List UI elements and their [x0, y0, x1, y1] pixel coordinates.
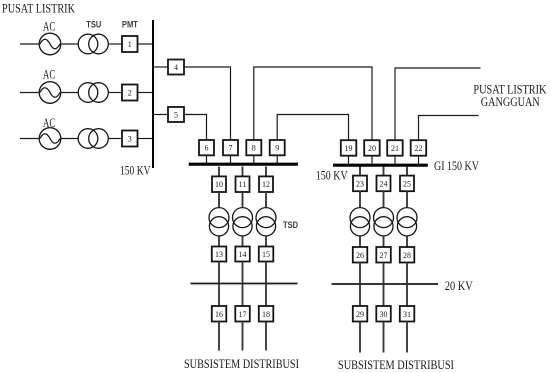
svg-text:TSD: TSD: [283, 220, 298, 230]
breaker box 15: [259, 247, 274, 262]
transformer TSD6: [397, 208, 417, 236]
wire box 9 to box 19 (line E): [277, 115, 348, 141]
wire box24 to TSD5: [383, 191, 385, 208]
breaker box 31: [400, 306, 415, 322]
generator AC2: [39, 82, 61, 104]
wire box15 to 20KV line: [265, 262, 267, 284]
wire feeder 16 down: [218, 322, 220, 351]
wire box13 to 20KV line: [218, 262, 220, 284]
svg-text:16: 16: [215, 310, 223, 319]
svg-text:AC: AC: [43, 19, 56, 34]
transformer TSD3: [256, 208, 276, 236]
svg-text:5: 5: [174, 111, 178, 120]
wire 20KV to box 16: [218, 284, 220, 307]
svg-text:28: 28: [403, 251, 411, 260]
wire 20KV to box 29: [359, 284, 361, 306]
svg-text:20 KV: 20 KV: [445, 278, 473, 293]
wire bus to box 5: [153, 114, 168, 116]
bus 20 KV right: [332, 283, 439, 285]
wire box25 to TSD6: [406, 191, 408, 208]
wire TSU3 to PMT3: [108, 138, 122, 140]
breaker box 23: [353, 176, 367, 192]
svg-text:18: 18: [262, 310, 270, 319]
breaker box 7: [223, 140, 238, 155]
svg-text:29: 29: [356, 310, 364, 319]
svg-text:27: 27: [380, 251, 388, 260]
wire stub G2: [20, 92, 39, 94]
svg-text:2: 2: [128, 89, 132, 98]
breaker box 19: [341, 140, 357, 156]
breaker box 29: [353, 306, 368, 322]
svg-text:21: 21: [391, 144, 399, 153]
wire box11 to TSD2: [242, 192, 244, 208]
wire PMT1 to bus: [138, 43, 154, 45]
wire box7 to left busbar: [230, 155, 232, 163]
wire busbar to box 23: [359, 167, 361, 176]
wire busbar to box 11: [242, 167, 244, 177]
svg-text:31: 31: [403, 310, 411, 319]
svg-text:9: 9: [275, 144, 279, 153]
wire 20KV to box 31: [406, 284, 408, 306]
wire PMT3 to bus: [138, 138, 154, 140]
wire feeder 18 down: [265, 322, 267, 351]
wire TSU1 to PMT1: [108, 43, 122, 45]
breaker box 11: [236, 176, 250, 192]
svg-text:GANGGUAN: GANGGUAN: [481, 94, 540, 109]
wire box 22 to Pusat Listrik Gangguan (line F): [419, 116, 479, 141]
breaker box 21: [387, 140, 403, 156]
wire TSD5 to box 27: [383, 236, 385, 247]
breaker box 4: [168, 60, 184, 75]
breaker box 26: [353, 247, 368, 263]
wire box14 to 20KV line: [242, 262, 244, 284]
svg-text:GI 150 KV: GI 150 KV: [434, 158, 479, 173]
breaker box 25: [400, 176, 414, 192]
bus 20 KV left: [191, 283, 298, 285]
wire box27 to 20KV line right: [383, 263, 385, 285]
breaker box 3: [122, 131, 138, 147]
transformer TSD4: [350, 208, 370, 236]
label PUSAT LISTRIK GANGGUAN: [473, 82, 546, 110]
svg-text:15: 15: [262, 250, 270, 259]
svg-text:12: 12: [262, 180, 270, 189]
transformer TSU1: [78, 34, 108, 54]
wire feeder 17 down: [242, 322, 244, 351]
svg-text:7: 7: [229, 144, 233, 153]
wire 20KV to box 17: [242, 284, 244, 307]
svg-text:AC: AC: [43, 67, 56, 82]
breaker box 14: [235, 247, 250, 262]
svg-text:23: 23: [356, 179, 364, 188]
svg-text:10: 10: [215, 180, 223, 189]
wire G2 to TSU2: [61, 92, 79, 94]
breaker box 2: [122, 85, 138, 101]
svg-text:20: 20: [368, 144, 376, 153]
wire box20 to right busbar: [371, 156, 373, 164]
svg-text:30: 30: [380, 310, 388, 319]
svg-text:26: 26: [356, 251, 364, 260]
breaker box 12: [259, 176, 273, 192]
breaker box 10: [212, 176, 226, 192]
breaker box 27: [376, 247, 391, 263]
wire TSD6 to box 28: [406, 236, 408, 247]
wire box26 to 20KV line right: [359, 263, 361, 285]
wire stub G1: [20, 43, 39, 45]
wire box8 to left busbar: [253, 155, 255, 163]
transformer TSD1: [209, 208, 229, 236]
wire stub G3: [20, 138, 39, 140]
wire box28 to 20KV line right: [406, 263, 408, 285]
breaker box 1: [122, 36, 138, 52]
wire PMT2 to bus: [138, 92, 154, 94]
svg-text:6: 6: [205, 144, 209, 153]
svg-text:25: 25: [403, 179, 411, 188]
svg-text:SUBSISTEM DISTRIBUSI: SUBSISTEM DISTRIBUSI: [338, 357, 454, 372]
svg-text:PUSAT LISTRIK: PUSAT LISTRIK: [2, 0, 75, 15]
svg-text:PMT: PMT: [122, 19, 138, 29]
breaker box 16: [212, 306, 227, 322]
wire box12 to TSD3: [265, 192, 267, 208]
generator AC3: [39, 128, 61, 150]
wire busbar to box 10: [218, 167, 220, 177]
svg-text:SUBSISTEM DISTRIBUSI: SUBSISTEM DISTRIBUSI: [184, 356, 299, 371]
breaker box 13: [212, 247, 227, 262]
svg-text:TSU: TSU: [86, 19, 101, 29]
wire box23 to TSD4: [359, 191, 361, 208]
breaker box 24: [377, 176, 391, 192]
breaker box 8: [246, 140, 261, 155]
wire TSD3 to box 15: [265, 236, 267, 247]
svg-text:150 KV: 150 KV: [120, 163, 151, 178]
transformer TSU2: [78, 83, 108, 103]
wire box10 to TSD1: [218, 192, 220, 208]
breaker box 9: [270, 140, 285, 155]
wire busbar to box 25: [406, 167, 408, 176]
wire 20KV to box 30: [383, 284, 385, 306]
transformer TSD5: [374, 208, 394, 236]
wire box19 to right busbar: [348, 156, 350, 164]
svg-text:1: 1: [128, 40, 132, 49]
transformer TSD2: [233, 208, 253, 236]
svg-text:13: 13: [215, 250, 223, 259]
svg-text:150 KV: 150 KV: [316, 168, 348, 183]
svg-text:8: 8: [252, 144, 256, 153]
wire box 21 open line (line C): [395, 68, 481, 140]
busbar right (GI 150 KV): [333, 164, 428, 167]
wire busbar to box 24: [383, 167, 385, 176]
wire G1 to TSU1: [61, 43, 79, 45]
wire TSD2 to box 14: [242, 236, 244, 247]
bus 150 KV (plant, vertical): [152, 20, 154, 168]
svg-text:19: 19: [345, 144, 353, 153]
busbar left (GI): [189, 163, 298, 166]
svg-text:3: 3: [128, 135, 132, 144]
wire TSU2 to PMT2: [108, 92, 122, 94]
wire feeder 31 down: [406, 322, 408, 353]
breaker box 17: [235, 306, 250, 322]
svg-text:17: 17: [239, 310, 247, 319]
breaker box 18: [259, 306, 274, 322]
svg-text:22: 22: [415, 144, 423, 153]
wire box9 to left busbar: [276, 155, 278, 163]
wire G3 to TSU3: [61, 138, 79, 140]
wire box 5 to box 6 (line D): [184, 115, 207, 141]
wire box 8 to box 20 (line B): [254, 67, 372, 140]
svg-text:14: 14: [239, 250, 247, 259]
wire box 4 to box 7 (line A): [184, 67, 231, 140]
transformer TSU3: [78, 129, 108, 149]
breaker box 20: [364, 140, 380, 156]
generator AC1: [39, 33, 61, 55]
breaker box 6: [199, 140, 214, 155]
wire bus to box 4: [153, 66, 168, 68]
wire TSD4 to box 26: [359, 236, 361, 247]
svg-text:11: 11: [239, 180, 247, 189]
wire 20KV to box 18: [265, 284, 267, 307]
svg-text:24: 24: [380, 179, 388, 188]
wire box22 to right busbar: [418, 156, 420, 164]
wire feeder 29 down: [359, 322, 361, 353]
svg-text:4: 4: [174, 63, 178, 72]
wire busbar to box 12: [265, 167, 267, 177]
breaker box 30: [376, 306, 391, 322]
breaker box 22: [411, 140, 427, 156]
breaker box 5: [168, 107, 184, 122]
wire TSD1 to box 13: [218, 236, 220, 247]
wire box21 to right busbar: [394, 156, 396, 164]
wire box6 to left busbar: [206, 155, 208, 163]
wire feeder 30 down: [383, 322, 385, 353]
breaker box 28: [400, 247, 415, 263]
